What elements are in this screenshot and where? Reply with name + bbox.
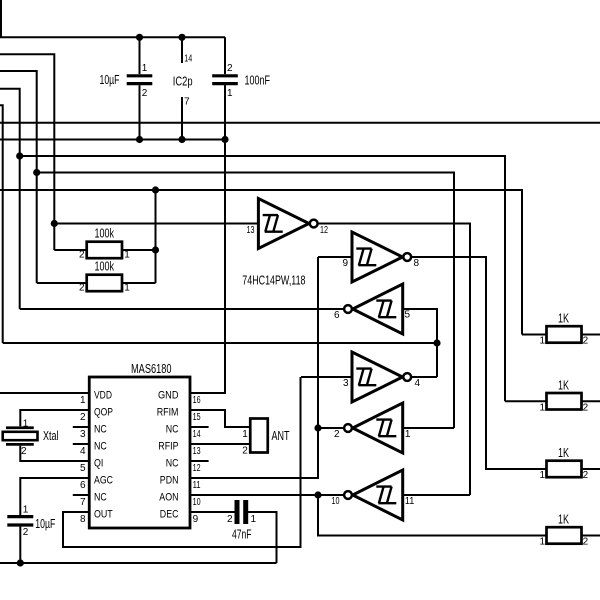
junction dot inverter-13 input tap xyxy=(51,220,58,227)
inverter 11/10: hysteresis symbol xyxy=(376,487,396,504)
IC2p power symbol: pin 14 stub xyxy=(181,37,183,63)
wire gate-9 input from vertical x=318 xyxy=(318,256,352,258)
junction dot y=343 / x=437 xyxy=(433,339,440,346)
svg-text:ANT: ANT xyxy=(272,429,290,443)
wire bus y=190 to right corner x=522 xyxy=(0,190,522,335)
wire 1K-R3 right lead xyxy=(582,468,600,470)
junction dot 100k R1 right / x=155.5 xyxy=(152,246,159,253)
svg-text:NC: NC xyxy=(166,458,179,470)
junction dot 10uF bottom / GND bus xyxy=(136,136,143,143)
svg-text:GND: GND xyxy=(158,390,179,402)
svg-text:74HC14PW,118: 74HC14PW,118 xyxy=(242,274,305,288)
svg-text:12: 12 xyxy=(320,225,328,236)
wire 1K-R1 left lead xyxy=(522,334,547,336)
wire to inverter-13 input y=223.5 xyxy=(54,223,258,225)
op-amp style inverter gate U1A pins 13-12: triangle xyxy=(258,199,309,249)
resistor 1K R1: body xyxy=(547,326,582,343)
capacitor C-10uF bottom: plates xyxy=(7,517,33,525)
wire from left edge y=88.7 turning down at x=19.7 xyxy=(0,89,20,309)
svg-text:13: 13 xyxy=(193,446,201,457)
svg-text:10: 10 xyxy=(193,497,201,508)
crystal Xtal: body xyxy=(3,432,38,440)
svg-text:1K: 1K xyxy=(558,378,569,392)
svg-text:47nF: 47nF xyxy=(232,528,252,542)
svg-text:2: 2 xyxy=(21,446,27,457)
resistor 1K R2: body xyxy=(547,393,582,410)
junction dot IC2p pin14 / VCC rail xyxy=(178,34,185,41)
svg-text:12: 12 xyxy=(193,463,201,474)
svg-text:14: 14 xyxy=(193,429,201,440)
junction dot bus y=156 start xyxy=(16,152,23,159)
wire GND pin16 up to ground bus via x=225 xyxy=(190,85,225,393)
svg-text:9: 9 xyxy=(193,514,199,525)
wire 100k-R1 leads y=250 xyxy=(54,249,155,251)
capacitor C-100nF: plates xyxy=(212,76,238,84)
svg-text:1: 1 xyxy=(23,418,29,429)
resistor 100k R1: body xyxy=(87,242,122,259)
inverter gate pins 9-8: triangle xyxy=(352,232,403,282)
capacitor C-47nF: plates (vertical) xyxy=(237,500,246,524)
svg-text:MAS6180: MAS6180 xyxy=(131,362,172,376)
svg-text:1: 1 xyxy=(23,504,29,515)
wire net VCC top rail y=37.3 xyxy=(0,0,225,37)
IC2p power symbol: pin 7 stub xyxy=(181,97,183,140)
svg-text:RFIM: RFIM xyxy=(157,407,179,419)
svg-text:VDD: VDD xyxy=(94,390,112,402)
svg-text:2: 2 xyxy=(227,63,233,74)
svg-text:QOP: QOP xyxy=(94,407,113,419)
wire gate-10 input to vertical x=470 xyxy=(403,494,470,496)
svg-text:1: 1 xyxy=(124,282,130,293)
wire 1K-R4 right lead xyxy=(582,535,600,537)
svg-text:8: 8 xyxy=(414,258,420,269)
svg-text:NC: NC xyxy=(94,424,107,436)
svg-text:2: 2 xyxy=(583,537,589,548)
wire 1K-R2 left lead xyxy=(505,400,547,402)
svg-text:OUT: OUT xyxy=(94,509,113,521)
inverter 3/4: hysteresis symbol xyxy=(356,369,376,386)
svg-text:RFIP: RFIP xyxy=(158,441,178,453)
inverter 5/6: hysteresis symbol xyxy=(376,301,396,318)
svg-text:7: 7 xyxy=(184,97,190,108)
svg-text:1: 1 xyxy=(539,537,545,548)
wire NC pin14 stub xyxy=(190,426,209,428)
IC U2 MAS6180: body xyxy=(89,377,190,528)
svg-text:6: 6 xyxy=(334,310,340,321)
svg-text:2: 2 xyxy=(142,88,148,99)
junction dot bus y=172.5 start xyxy=(33,169,40,176)
svg-text:10µF: 10µF xyxy=(100,73,120,87)
junction dot AON wire / x=318 xyxy=(314,491,321,498)
svg-text:3: 3 xyxy=(80,429,86,440)
capacitor C-10uF top: leads xyxy=(139,37,141,139)
wire gate-5 input to vertical x=437 xyxy=(403,309,437,377)
svg-text:1: 1 xyxy=(405,429,411,440)
svg-text:1K: 1K xyxy=(558,446,569,460)
junction dot IC2p pin7 / GND bus xyxy=(178,136,185,143)
svg-text:9: 9 xyxy=(342,258,348,269)
wire GND bus y=139.5 xyxy=(0,139,225,141)
svg-text:4: 4 xyxy=(80,446,86,457)
svg-text:100k: 100k xyxy=(95,260,115,274)
resistor 1K R3: body xyxy=(547,461,582,478)
wire PDN pin11 to vertical x=318 xyxy=(190,477,318,479)
svg-text:13: 13 xyxy=(247,225,255,236)
svg-text:6: 6 xyxy=(80,480,86,491)
crystal Xtal: top plate xyxy=(6,426,34,429)
resistor 1K R4: body xyxy=(547,527,582,544)
svg-text:2: 2 xyxy=(80,412,86,423)
wire 1K-R2 right lead xyxy=(582,400,600,402)
svg-text:PDN: PDN xyxy=(160,475,179,487)
wire gate-2 output bubble to vertical x=318 xyxy=(318,427,343,429)
wire from left edge y=105.3 turning down at x=2.7 xyxy=(0,105,3,343)
svg-text:1: 1 xyxy=(539,403,545,414)
wire NC pin4 stub xyxy=(73,443,89,445)
wire bus y=122.7 full width xyxy=(0,122,600,124)
svg-text:5: 5 xyxy=(80,463,86,474)
wire vertical x=318 AON node down to 1K-R4 xyxy=(318,495,547,536)
antenna ANT: body xyxy=(250,419,268,453)
junction dot 10uF / bottom ground bus xyxy=(17,559,24,566)
wire inverter-12 output to gate-11 input vertical x=470 xyxy=(318,224,470,496)
junction dot bus y=190 / x=155.5 xyxy=(152,186,159,193)
svg-text:2: 2 xyxy=(23,527,29,538)
capacitor C-100nF: leads xyxy=(224,37,226,139)
svg-text:10µF: 10µF xyxy=(35,517,55,531)
inverter 1/2: hysteresis symbol xyxy=(376,420,396,437)
wire VDD pin1 to left edge xyxy=(0,392,89,394)
inverter 5/6: output bubble xyxy=(344,305,352,313)
svg-text:4: 4 xyxy=(415,378,421,389)
wire vertical x=318 gate9-in/gate2-out/PDN node xyxy=(190,257,318,478)
svg-text:1: 1 xyxy=(124,249,130,260)
wire 100k-R2 leads y=283 xyxy=(37,282,156,284)
junction dot gate-2 output / x=318 xyxy=(314,424,321,431)
svg-text:1: 1 xyxy=(242,429,248,440)
wire bottom ground bus y=563 xyxy=(0,562,277,564)
inverter gate pins 3-4: triangle xyxy=(352,352,403,402)
resistor 100k R2: body xyxy=(87,275,122,292)
wire AON pin10 to gate-10 output bubble xyxy=(190,494,343,496)
svg-text:2: 2 xyxy=(583,336,589,347)
wire gate-4 output to vertical x=437 xyxy=(412,376,437,378)
svg-text:100nF: 100nF xyxy=(245,74,271,88)
svg-text:2: 2 xyxy=(79,249,85,260)
inverter 13/12: output bubble xyxy=(310,220,318,228)
svg-text:1K: 1K xyxy=(558,312,569,326)
svg-text:8: 8 xyxy=(80,514,86,525)
svg-text:100k: 100k xyxy=(95,227,115,241)
wire AGC pin6 down to 10uF cap xyxy=(20,478,89,515)
junction dot 10uF top / VCC rail xyxy=(136,34,143,41)
svg-text:NC: NC xyxy=(94,441,107,453)
svg-text:Xtal: Xtal xyxy=(43,429,59,443)
svg-text:1: 1 xyxy=(251,514,257,525)
svg-text:1: 1 xyxy=(539,336,545,347)
wire 47nF right plate down to bottom bus xyxy=(248,512,277,563)
svg-text:DEC: DEC xyxy=(160,509,179,521)
wire bus y=172.5 to right corner x=454 xyxy=(37,173,454,429)
svg-text:2: 2 xyxy=(227,514,233,525)
wire NC pin3 stub xyxy=(73,426,89,428)
inverter 9/8: output bubble xyxy=(403,253,411,261)
svg-text:AON: AON xyxy=(159,492,178,504)
inverter 1/2: output bubble xyxy=(344,424,352,432)
svg-text:11: 11 xyxy=(405,496,415,507)
svg-text:IC2p: IC2p xyxy=(173,74,193,88)
svg-text:AGC: AGC xyxy=(94,475,113,487)
crystal Xtal: bottom plate xyxy=(6,443,34,446)
wire gate-2 input from vertical x=454 xyxy=(403,427,454,429)
svg-text:2: 2 xyxy=(334,429,340,440)
wire QOP pin2 to crystal top xyxy=(20,410,89,426)
wire gate-3 input from vertical x=301 xyxy=(301,376,352,378)
svg-text:1: 1 xyxy=(80,395,86,406)
svg-text:QI: QI xyxy=(94,458,103,470)
wire vertical x=155.5 from bus y=190 to 100k resistors xyxy=(155,190,157,283)
wire bus y=156 to right corner x=505 xyxy=(20,156,505,401)
svg-text:2: 2 xyxy=(79,282,85,293)
wire y=343 from far left to node x=437 xyxy=(3,342,437,344)
junction dot 100nF bottom / GND bus xyxy=(221,136,228,143)
wire from left edge y=54.3 turning down at x=54.3 xyxy=(0,54,54,250)
wire bus y=309 to gate-6 output bubble xyxy=(20,308,344,310)
svg-text:14: 14 xyxy=(184,54,192,65)
svg-text:1K: 1K xyxy=(558,513,569,527)
svg-text:10: 10 xyxy=(332,496,340,507)
inverter 9/8: hysteresis symbol xyxy=(356,249,376,266)
svg-text:2: 2 xyxy=(583,470,589,481)
svg-text:2: 2 xyxy=(242,445,248,456)
svg-text:11: 11 xyxy=(193,480,201,491)
wire 1K-R1 right lead xyxy=(582,334,600,336)
wire RFIP pin13 to ANT pin2 xyxy=(190,443,250,445)
inverter gate pins 11-10 (left-pointing): triangle xyxy=(353,470,403,520)
svg-text:1: 1 xyxy=(142,63,148,74)
svg-text:5: 5 xyxy=(405,310,411,321)
svg-text:2: 2 xyxy=(583,403,589,414)
capacitor C-10uF top: plates xyxy=(127,76,153,84)
inverter gate pins 5-6 (left-pointing): triangle xyxy=(353,284,403,334)
wire QI pin5 to crystal bottom xyxy=(20,446,89,461)
wire OUT pin8 down around to gate-3 input vertical xyxy=(63,377,301,547)
svg-text:7: 7 xyxy=(80,497,86,508)
inverter gate pins 1-2 (left-pointing): triangle xyxy=(353,403,403,453)
svg-text:15: 15 xyxy=(193,412,201,423)
svg-text:NC: NC xyxy=(166,424,179,436)
wire RFIM pin15 jog to ANT pin1 xyxy=(190,410,250,427)
svg-text:1: 1 xyxy=(539,470,545,481)
svg-text:1: 1 xyxy=(227,88,233,99)
svg-text:NC: NC xyxy=(94,492,107,504)
inverter 11/10: output bubble xyxy=(344,491,352,499)
inverter 13/12: hysteresis symbol xyxy=(263,215,283,232)
inverter 3/4: output bubble xyxy=(403,373,411,381)
wire from left edge y=71 turning down at x=36.7 xyxy=(0,71,37,283)
wire DEC pin9 to 47nF xyxy=(190,511,235,513)
wire NC pin7 stub xyxy=(73,494,89,496)
wire NC pin12 stub xyxy=(190,460,209,462)
wire 10uF bottom cap to ground bus xyxy=(19,527,21,563)
svg-text:16: 16 xyxy=(193,395,201,406)
svg-text:3: 3 xyxy=(343,378,349,389)
wire gate-8 output to 1K-R3 xyxy=(412,257,547,469)
